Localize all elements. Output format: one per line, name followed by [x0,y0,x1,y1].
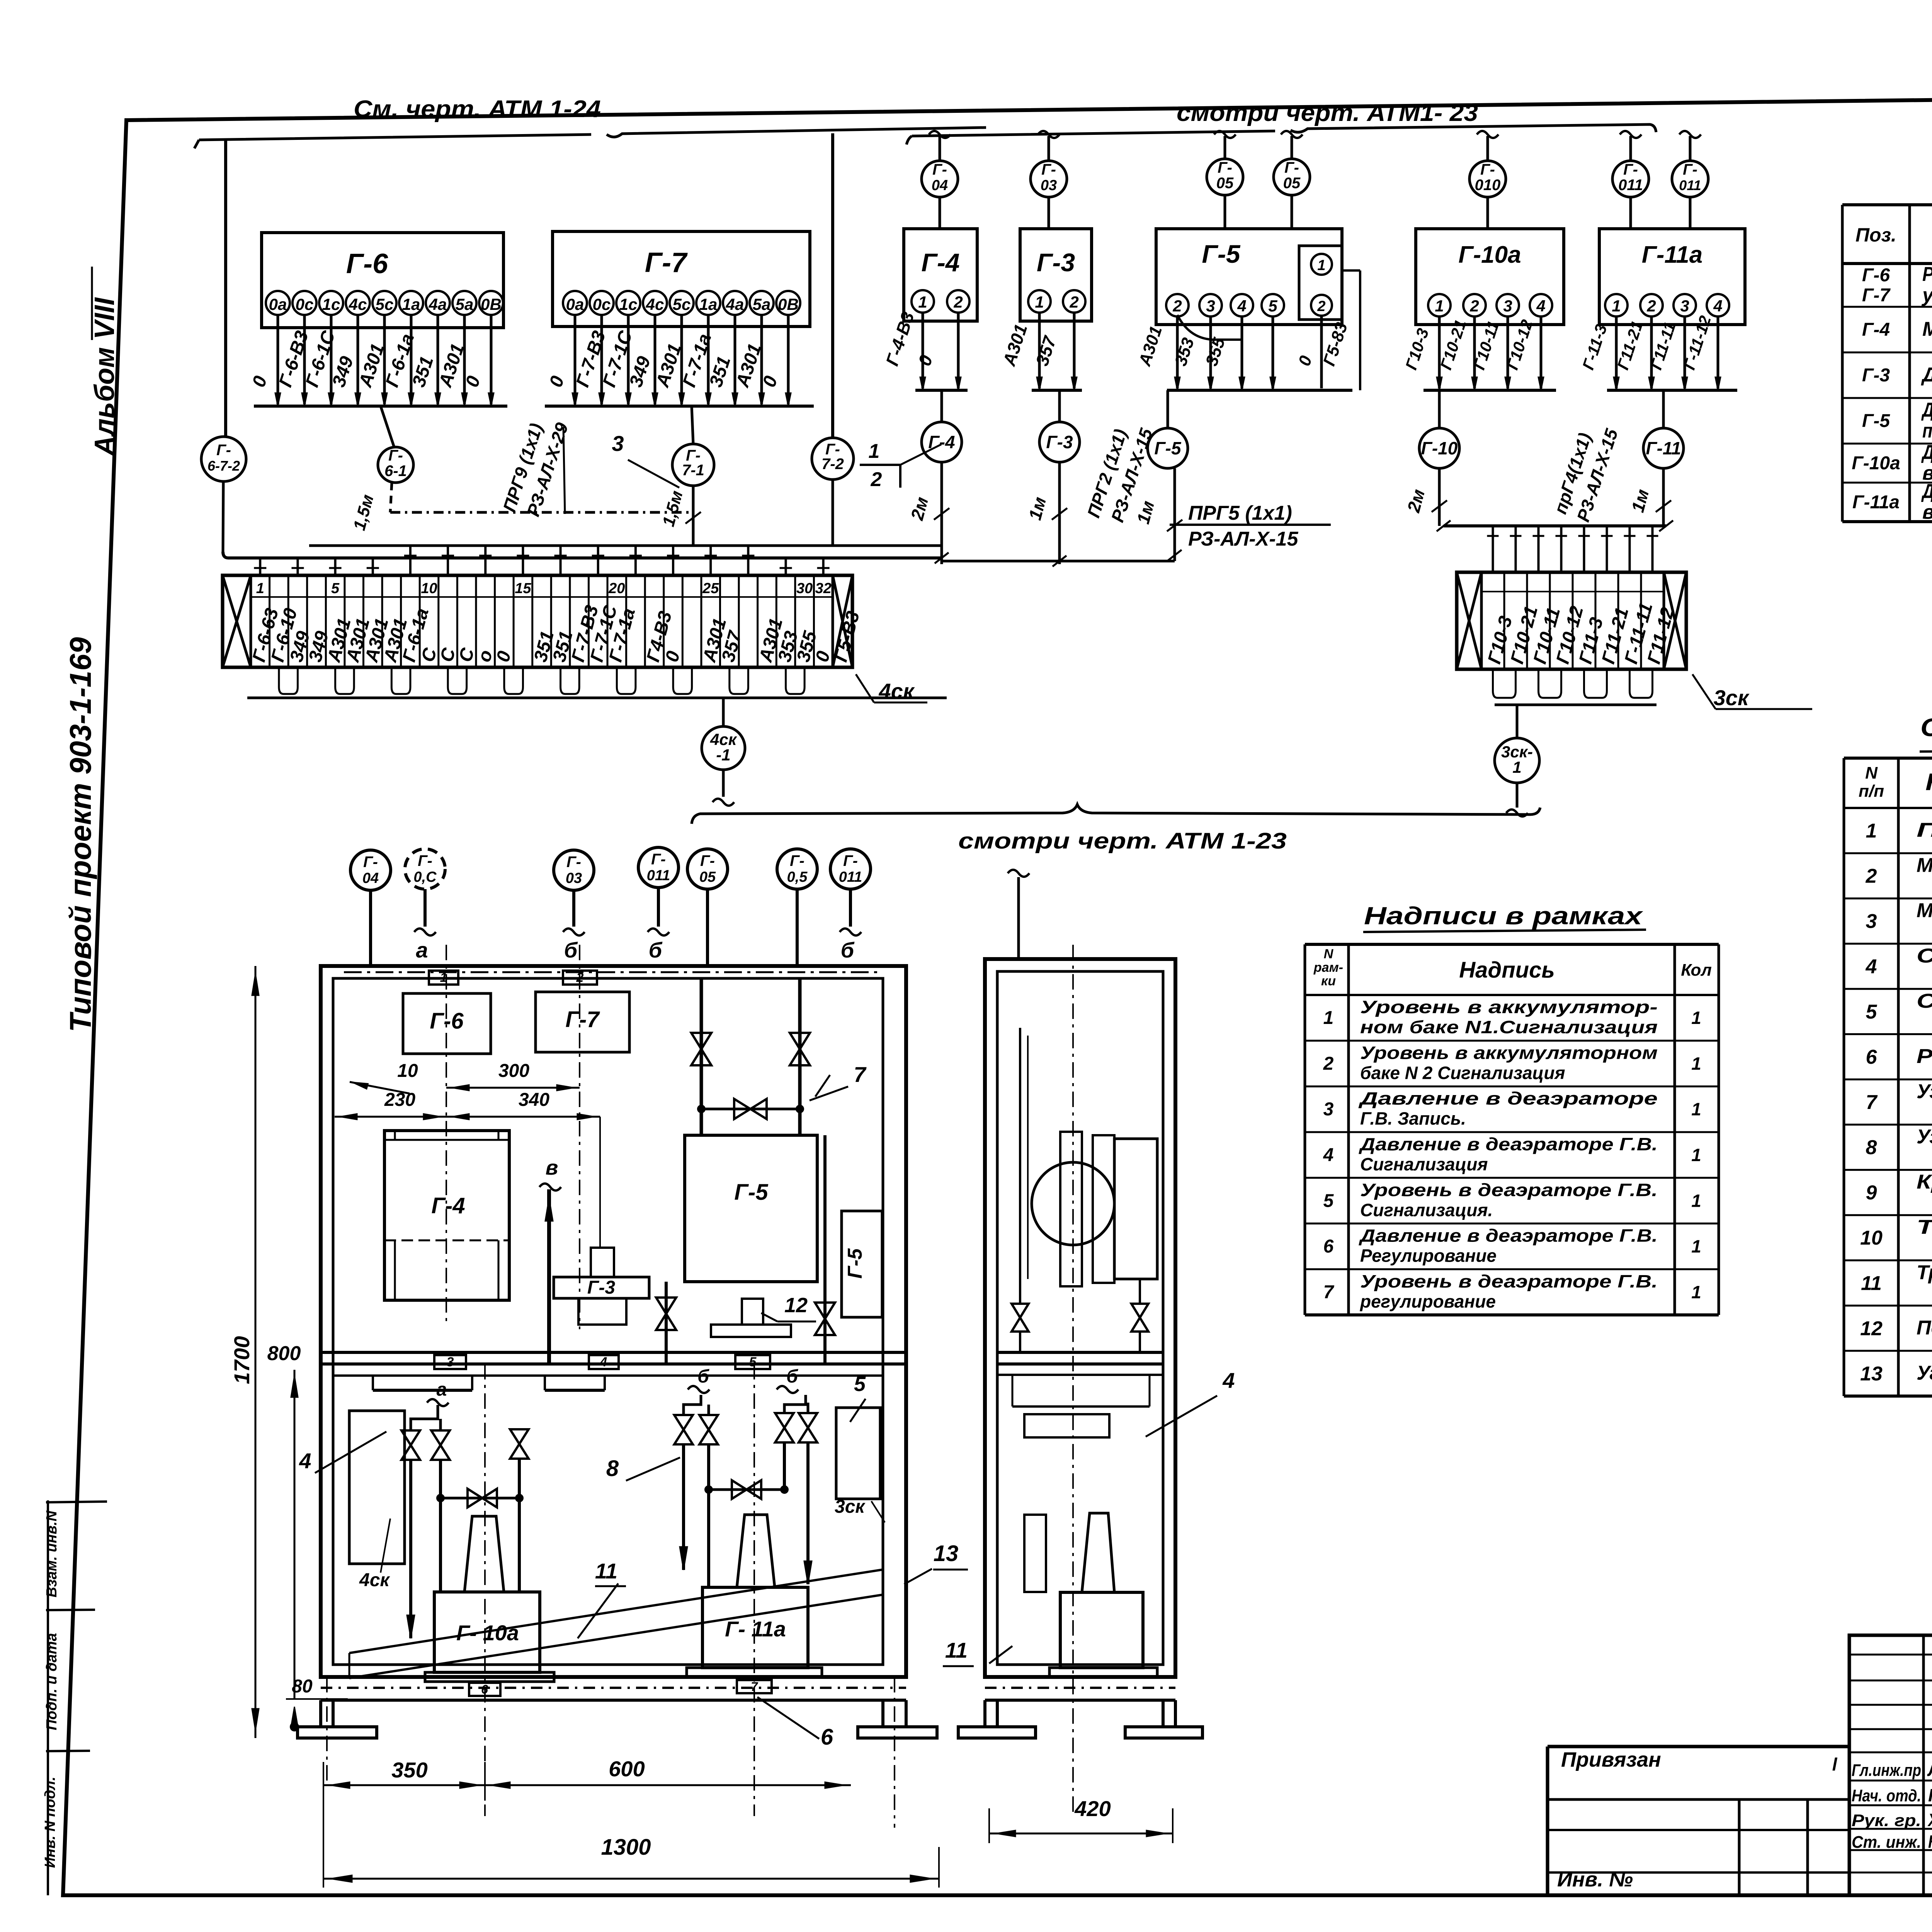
svg-text:1,5м: 1,5м [659,489,687,529]
svg-text:Г-: Г- [932,161,947,178]
svg-text:Давление в деаэраторе Г.В.: Давление в деаэраторе Г.В. [1358,1134,1658,1154]
svg-text:Подп. и дата: Подп. и дата [44,1633,60,1730]
svg-text:Поз.: Поз. [1855,224,1896,246]
svg-text:Г-5: Г-5 [734,1180,768,1205]
svg-text:20: 20 [608,580,625,597]
svg-text:б: б [649,938,663,962]
svg-text:Г-6: Г-6 [1862,265,1890,286]
svg-text:13: 13 [1860,1362,1883,1385]
svg-text:420: 420 [1074,1796,1111,1821]
svg-text:357: 357 [1032,333,1060,368]
svg-text:4ск: 4ск [359,1570,390,1590]
svg-text:0с: 0с [593,295,611,313]
svg-text:11: 11 [595,1559,617,1583]
svg-text:10: 10 [1860,1227,1883,1249]
svg-text:600: 600 [609,1757,645,1781]
svg-text:5: 5 [1268,297,1277,315]
svg-text:Г-5: Г-5 [1202,240,1240,268]
svg-text:1: 1 [1691,1053,1701,1073]
svg-text:Г-: Г- [363,854,378,871]
svg-text:Сигнализация.: Сигнализация. [1360,1200,1493,1220]
svg-text:1: 1 [1317,257,1325,274]
svg-text:2: 2 [1866,865,1877,888]
svg-text:в: в [546,1156,558,1179]
svg-text:3: 3 [1323,1099,1334,1120]
svg-text:2: 2 [1317,298,1325,315]
svg-text:Г-10а: Г-10а [1458,241,1521,268]
svg-text:1: 1 [1691,1282,1701,1302]
svg-text:7-1: 7-1 [682,462,704,479]
svg-text:3: 3 [612,431,624,456]
svg-text:15: 15 [515,580,531,597]
svg-text:0: 0 [662,649,684,664]
svg-text:355: 355 [1202,335,1229,368]
svg-text:0с: 0с [296,295,314,313]
svg-text:Датчик-реле напора: Датчик-реле напора [1921,364,1932,386]
svg-text:0: 0 [493,649,515,664]
svg-text:340: 340 [519,1090,549,1110]
svg-text:Г-7: Г-7 [1862,285,1891,306]
svg-text:Г.В. Запись.: Г.В. Запись. [1360,1109,1466,1129]
svg-text:Г-3: Г-3 [1862,365,1890,386]
svg-text:32: 32 [815,580,832,597]
svg-text:Металлорукав: Металлорукав [1917,854,1932,877]
svg-text:5: 5 [331,580,340,597]
svg-text:Г-: Г- [1480,161,1495,178]
svg-text:Труба стальная: Труба стальная [1917,1216,1932,1238]
svg-text:б: б [841,938,855,962]
svg-text:011: 011 [647,867,670,884]
svg-text:Г5-В3: Г5-В3 [830,609,864,664]
svg-text:1с: 1с [322,295,340,313]
svg-text:Инв. №: Инв. № [1557,1868,1633,1891]
svg-text:Регулирование: Регулирование [1360,1246,1497,1266]
svg-text:Уровень в деаэраторе Г.В.: Уровень в деаэраторе Г.В. [1360,1180,1658,1200]
svg-text:1м: 1м [1133,498,1158,526]
svg-text:0: 0 [248,373,271,389]
svg-text:Г-: Г- [1683,161,1697,178]
svg-text:Г-5: Г-5 [1154,438,1182,458]
svg-text:3: 3 [1866,910,1877,933]
svg-text:Г-4: Г-4 [431,1193,465,1218]
svg-text:7-2: 7-2 [821,456,844,473]
svg-text:4: 4 [1713,297,1722,315]
svg-text:Гл.инж.пр: Гл.инж.пр [1852,1761,1921,1780]
svg-text:0,С: 0,С [413,869,437,885]
svg-text:Г-: Г- [566,854,581,871]
svg-text:1с: 1с [619,295,638,313]
svg-text:смотри черт. АТМ1- 23: смотри черт. АТМ1- 23 [1177,100,1478,126]
svg-text:Кран контрольный: Кран контрольный [1917,1171,1932,1193]
svg-text:Провод гибкий: Провод гибкий [1917,819,1932,842]
svg-text:0а: 0а [269,295,287,313]
svg-text:1: 1 [1866,820,1877,842]
svg-text:Г-5: Г-5 [1862,411,1890,431]
svg-text:Манометр самопишущий: Манометр самопишущий [1922,318,1932,340]
svg-text:Уровень в деаэраторе Г.В.: Уровень в деаэраторе Г.В. [1360,1271,1658,1291]
svg-text:6: 6 [481,1682,488,1696]
svg-text:010: 010 [1475,177,1501,194]
svg-text:04: 04 [932,177,948,194]
svg-text:1: 1 [1035,293,1044,311]
svg-text:Регулятор-сигнализатор: Регулятор-сигнализатор [1922,263,1932,286]
svg-text:Труба: Труба [1917,1261,1932,1284]
svg-text:Г10-3: Г10-3 [1402,326,1432,372]
svg-text:РЗ-АЛ-Х-15: РЗ-АЛ-Х-15 [1188,528,1299,550]
svg-text:1а: 1а [402,295,420,313]
svg-text:Г-4-В3: Г-4-В3 [882,309,918,368]
svg-text:Харитонова: Харитонова [1927,1810,1932,1830]
svg-text:03: 03 [1041,177,1057,194]
svg-text:1: 1 [1691,1099,1701,1119]
svg-text:Г-: Г- [843,852,858,869]
svg-text:ки: ки [1321,974,1336,988]
svg-text:6-1: 6-1 [384,463,407,480]
svg-text:80: 80 [292,1676,313,1697]
svg-text:Ст. инж.: Ст. инж. [1852,1833,1921,1852]
svg-text:б: б [697,1366,709,1387]
svg-text:Уровень в аккумуляторном: Уровень в аккумуляторном [1360,1043,1658,1063]
svg-text:Г-: Г- [790,852,804,869]
svg-text:Альбом VIII: Альбом VIII [89,297,120,456]
svg-text:А301: А301 [999,321,1031,369]
svg-text:Г-11: Г-11 [1646,438,1681,458]
svg-text:351: 351 [408,354,437,390]
svg-text:Металлорукав: Металлорукав [1917,900,1932,922]
svg-text:05: 05 [1216,175,1234,192]
svg-text:Г-11а: Г-11а [1852,492,1900,513]
svg-text:349: 349 [328,354,357,390]
svg-text:3: 3 [1680,297,1689,315]
svg-text:Г-: Г- [700,852,715,869]
svg-text:1700: 1700 [230,1336,254,1384]
svg-text:2: 2 [1646,297,1656,315]
svg-text:1м: 1м [1628,487,1653,514]
svg-text:Г- 10а: Г- 10а [456,1621,519,1645]
svg-text:7: 7 [751,1680,759,1694]
svg-text:7: 7 [854,1062,867,1087]
svg-text:б: б [786,1366,798,1387]
svg-text:а: а [437,1379,447,1400]
svg-text:1: 1 [1691,1145,1701,1165]
svg-text:349: 349 [626,354,655,390]
svg-text:Подставка: Подставка [1917,1316,1932,1339]
svg-text:ПРГ5 (1х1): ПРГ5 (1х1) [1188,502,1292,524]
svg-text:Узел обвязки: Узел обвязки [1917,1080,1932,1103]
svg-text:показывающий сигнализирующий: показывающий сигнализирующий [1922,420,1932,442]
svg-text:5с: 5с [673,295,691,313]
svg-text:1м: 1м [1025,495,1050,522]
svg-text:353: 353 [1171,335,1198,368]
svg-text:п/п: п/п [1859,782,1884,801]
svg-text:3ск: 3ск [1714,685,1750,710]
svg-text:2: 2 [871,468,882,491]
svg-text:Наименование: Наименование [1925,769,1932,796]
svg-text:1: 1 [1691,1008,1701,1028]
svg-text:б: б [564,938,578,962]
svg-text:Г-7: Г-7 [565,1007,600,1032]
svg-text:баке N 2 Сигнализация: баке N 2 Сигнализация [1360,1063,1565,1083]
svg-text:4а: 4а [726,295,744,313]
svg-text:См. черт. АТМ 1-24: См. черт. АТМ 1-24 [354,96,601,122]
svg-text:6: 6 [1866,1046,1878,1068]
svg-text:Г-: Г- [651,851,666,868]
svg-text:Г-: Г- [1284,159,1299,176]
svg-text:рам-: рам- [1313,960,1343,975]
svg-text:1: 1 [869,440,880,463]
svg-text:4: 4 [1237,297,1246,315]
svg-text:7: 7 [1323,1282,1335,1303]
svg-text:Карамышева: Карамышева [1928,1832,1932,1852]
svg-text:А301: А301 [1135,324,1166,369]
svg-text:3: 3 [1206,297,1215,315]
svg-text:l: l [1832,1754,1838,1774]
svg-text:Г-3: Г-3 [1046,432,1073,452]
svg-text:уровня: уровня [1921,284,1932,306]
svg-text:4: 4 [1866,956,1877,978]
svg-text:смотри черт. АТМ 1-23: смотри черт. АТМ 1-23 [958,828,1287,854]
svg-text:0,5: 0,5 [787,869,808,885]
svg-text:Давление в деаэраторе: Давление в деаэраторе [1358,1088,1658,1109]
svg-text:Сигнализация: Сигнализация [1360,1154,1488,1174]
svg-text:-1: -1 [716,746,730,764]
svg-text:1: 1 [1512,758,1521,776]
svg-text:1: 1 [1435,297,1444,315]
svg-text:6: 6 [821,1725,833,1750]
svg-text:Г-6: Г-6 [346,248,388,279]
svg-text:Г-: Г- [418,852,432,869]
svg-text:2: 2 [953,293,963,311]
svg-text:Г-11-3: Г-11-3 [1579,322,1611,372]
svg-text:Соединительная: Соединительная [1917,990,1932,1012]
svg-text:9: 9 [1866,1182,1877,1204]
svg-text:2: 2 [1469,297,1479,315]
svg-text:4ск: 4ск [879,679,915,703]
svg-text:05: 05 [1283,175,1301,192]
svg-text:Нач. отд.: Нач. отд. [1852,1786,1921,1805]
svg-text:2м: 2м [1403,487,1429,515]
svg-text:4с: 4с [646,295,664,313]
svg-text:13: 13 [934,1541,959,1566]
svg-text:7: 7 [1866,1091,1878,1114]
svg-text:регулирование: регулирование [1359,1291,1496,1311]
svg-text:1: 1 [1323,1008,1334,1028]
svg-text:Г-: Г- [1623,161,1638,178]
svg-text:0: 0 [914,352,936,368]
svg-text:Г-: Г- [1041,161,1056,178]
svg-text:ном баке N1.Сигнализация: ном баке N1.Сигнализация [1360,1017,1658,1037]
svg-text:6: 6 [1323,1236,1334,1257]
svg-text:Г-4: Г-4 [928,432,955,452]
svg-text:5а: 5а [456,295,474,313]
svg-text:Г-3: Г-3 [1037,248,1075,277]
svg-text:3: 3 [447,1355,454,1369]
svg-text:2: 2 [1069,293,1078,311]
svg-text:1: 1 [1691,1236,1701,1257]
svg-text:0а: 0а [566,295,584,313]
svg-text:4: 4 [1536,297,1545,315]
svg-text:4: 4 [1323,1145,1334,1165]
svg-text:10: 10 [397,1061,418,1081]
svg-text:4с: 4с [349,295,367,313]
svg-text:Г-11а: Г-11а [1642,241,1703,268]
svg-text:Г-: Г- [216,442,231,459]
svg-text:230: 230 [384,1090,415,1110]
svg-text:8: 8 [1866,1136,1877,1159]
svg-text:Г-5: Г-5 [844,1248,866,1279]
svg-text:11: 11 [1861,1272,1882,1294]
svg-text:4: 4 [600,1355,607,1369]
svg-text:351: 351 [706,354,735,390]
svg-text:Г-: Г- [388,447,403,464]
svg-text:5: 5 [854,1372,866,1396]
svg-text:5: 5 [1323,1190,1334,1211]
svg-text:1: 1 [1612,297,1621,315]
svg-text:Надписи в рамках: Надписи в рамках [1364,902,1643,930]
svg-text:1а: 1а [699,295,718,313]
svg-text:Г-10: Г-10 [1421,438,1458,458]
svg-text:Г- 11а: Г- 11а [725,1617,786,1641]
svg-text:4а: 4а [429,295,447,313]
svg-text:04: 04 [362,870,379,886]
svg-text:Г-10а: Г-10а [1852,453,1900,474]
svg-text:1: 1 [1691,1190,1701,1211]
svg-text:Г5-83: Г5-83 [1320,320,1351,369]
svg-text:4: 4 [299,1449,311,1473]
svg-text:Г-: Г- [1218,159,1232,176]
svg-text:4: 4 [1222,1368,1235,1393]
svg-text:Дифманометр мембранный: Дифманометр мембранный [1921,480,1932,503]
svg-text:Кол: Кол [1681,961,1712,980]
svg-text:Г-4: Г-4 [1862,320,1890,340]
svg-text:0В: 0В [778,295,799,313]
svg-text:1: 1 [918,293,927,311]
svg-text:Левитан: Левитан [1927,1760,1932,1780]
svg-text:Спецификация основных монтаж: Спецификация основных монтажных материал… [1920,713,1932,742]
svg-text:Рамка для надписи: Рамка для надписи [1917,1045,1932,1068]
svg-text:N: N [1324,947,1334,961]
svg-text:12: 12 [784,1294,808,1317]
svg-text:03: 03 [566,870,582,886]
svg-text:300: 300 [498,1061,529,1081]
svg-text:30: 30 [796,580,813,597]
svg-text:Надпись: Надпись [1459,957,1555,983]
svg-text:350: 350 [391,1758,427,1782]
svg-text:05: 05 [699,869,716,885]
svg-text:Кашыцин: Кашыцин [1928,1785,1932,1805]
svg-text:800: 800 [267,1342,301,1365]
svg-text:Уровень в аккумулятор-: Уровень в аккумулятор- [1360,997,1658,1017]
svg-text:011: 011 [1618,177,1643,194]
svg-text:011: 011 [1679,177,1701,193]
svg-text:25: 25 [702,580,719,597]
svg-text:а: а [416,938,428,962]
svg-text:5с: 5с [376,295,394,313]
svg-text:0: 0 [1295,353,1316,368]
svg-text:Рук. гр.: Рук. гр. [1852,1811,1921,1830]
svg-text:011: 011 [839,869,862,885]
svg-text:Г-4: Г-4 [921,248,959,277]
svg-text:Типовой проект 903-1-169: Типовой проект 903-1-169 [63,637,97,1032]
svg-text:2: 2 [1323,1053,1334,1074]
svg-text:Г11-21: Г11-21 [1614,319,1646,372]
svg-text:5а: 5а [753,295,771,313]
svg-text:Дифманометр мембранный: Дифманометр мембранный [1921,441,1932,464]
svg-text:10: 10 [421,580,437,597]
svg-text:5: 5 [749,1355,757,1369]
svg-text:2м: 2м [906,495,932,522]
svg-text:взаимозаменяемый: взаимозаменяемый [1922,501,1932,524]
svg-text:12: 12 [1860,1317,1883,1340]
svg-text:Привязан: Привязан [1561,1748,1661,1771]
svg-text:Г-3: Г-3 [587,1277,615,1298]
svg-text:Дифманометр, сильфонный: Дифманометр, сильфонный [1921,399,1932,421]
svg-text:1: 1 [256,580,264,597]
svg-text:1300: 1300 [601,1835,651,1860]
svg-text:0В: 0В [481,295,502,313]
svg-text:N: N [1865,764,1878,782]
svg-text:6-7-2: 6-7-2 [207,458,240,474]
svg-text:0: 0 [546,373,568,389]
svg-text:11: 11 [945,1638,968,1662]
svg-text:Уголок: Уголок [1917,1362,1932,1384]
svg-text:Г-7: Г-7 [645,247,688,278]
svg-text:3ск: 3ск [835,1497,866,1517]
svg-text:Взам. инв.N: Взам. инв.N [44,1510,60,1597]
svg-text:Г-6: Г-6 [430,1009,464,1034]
svg-text:2: 2 [1172,297,1182,315]
svg-text:Соединительная: Соединительная [1917,945,1932,967]
svg-text:Инв. N подл.: Инв. N подл. [42,1777,58,1868]
svg-text:Давление в деаэраторе Г.В.: Давление в деаэраторе Г.В. [1358,1226,1658,1246]
svg-text:8: 8 [606,1456,619,1481]
svg-text:Узел обвязки: Узел обвязки [1917,1126,1932,1148]
svg-text:3: 3 [1503,297,1512,315]
svg-text:5: 5 [1866,1001,1878,1023]
svg-text:1,5м: 1,5м [350,493,378,532]
